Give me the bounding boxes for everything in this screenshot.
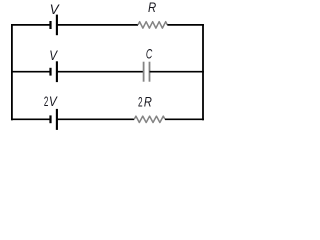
- svg-text:R: R: [144, 95, 152, 110]
- wire middle-center segment: [57, 71, 144, 73]
- svg-text:C: C: [146, 46, 152, 61]
- svg-text:V: V: [49, 94, 59, 109]
- svg-text:R: R: [148, 0, 156, 15]
- wire top-middle segment: [57, 24, 138, 26]
- label 2V (bottom battery value): [44, 94, 59, 109]
- battery 2V (bottom cell): [51, 109, 57, 130]
- wire bottom-right segment: [165, 118, 204, 120]
- resistor 2R: [134, 116, 165, 122]
- capacitor C: [144, 62, 150, 82]
- left rail wire: [11, 24, 13, 120]
- wire top-right segment: [167, 24, 204, 26]
- right rail wire: [202, 24, 204, 120]
- battery V (middle cell): [51, 61, 57, 82]
- wire bottom-left segment: [11, 118, 51, 120]
- wire middle-right segment: [150, 71, 204, 73]
- resistor R: [138, 22, 167, 28]
- battery V (top cell): [51, 15, 57, 36]
- wire bottom-center segment: [57, 118, 134, 120]
- svg-text:V: V: [50, 2, 61, 17]
- wire top-left segment: [11, 24, 51, 26]
- label 2R (bottom resistor value): [138, 95, 152, 110]
- svg-text:2: 2: [138, 95, 143, 110]
- svg-text:V: V: [49, 48, 58, 63]
- wire middle-left segment: [11, 71, 51, 73]
- svg-text:2: 2: [44, 94, 49, 109]
